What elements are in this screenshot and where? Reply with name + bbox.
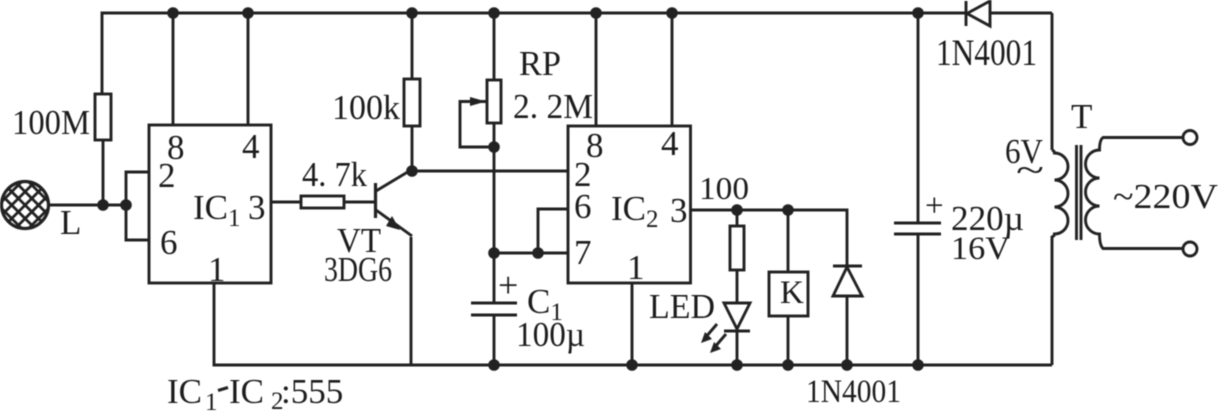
svg-text:K: K xyxy=(780,275,804,311)
wire bottom rail xyxy=(214,283,1052,365)
svg-text:4: 4 xyxy=(242,127,260,166)
wire IC1 pin4 to rail xyxy=(247,13,250,125)
svg-text:6: 6 xyxy=(160,223,178,262)
relay K xyxy=(769,210,808,365)
node junction RP rail xyxy=(488,7,500,19)
node junction C1 ground xyxy=(488,359,500,371)
svg-text:4: 4 xyxy=(661,124,679,163)
electrode L xyxy=(0,165,92,245)
wire bracket pins 6-7 of IC2 xyxy=(538,209,568,253)
svg-text:T: T xyxy=(1071,97,1092,136)
svg-text:2. 2M: 2. 2M xyxy=(513,87,593,126)
svg-text:6: 6 xyxy=(574,187,592,226)
capacitor C1 100u xyxy=(471,303,517,365)
svg-text:L: L xyxy=(60,203,81,242)
transformer T primary 6V xyxy=(1052,13,1068,365)
svg-text:100µ: 100µ xyxy=(516,315,585,354)
svg-text:100M: 100M xyxy=(12,103,90,142)
node junction output/100 xyxy=(731,204,743,216)
svg-text:100: 100 xyxy=(699,170,749,206)
svg-text:RP: RP xyxy=(519,44,561,83)
svg-text:1: 1 xyxy=(627,248,645,287)
diode D3 1N4001 rectifier xyxy=(966,1,990,26)
svg-text:100k: 100k xyxy=(332,88,400,127)
wire IC1 pin8 to rail xyxy=(172,13,175,125)
wire IC2 pin1 to ground xyxy=(631,283,634,365)
svg-text:3DG6: 3DG6 xyxy=(324,250,392,289)
node junction RP wiper xyxy=(488,141,500,153)
svg-text:2: 2 xyxy=(158,156,176,195)
wire emitter down xyxy=(410,237,413,365)
wire top rail xyxy=(102,13,966,94)
wire from electrode L to node xyxy=(47,204,126,207)
svg-text:1: 1 xyxy=(208,250,226,289)
op-amp U2 IC2 555 box xyxy=(568,126,691,283)
wire IC2 pin8 to rail xyxy=(595,13,598,126)
node junction pin4 rail xyxy=(242,7,254,19)
wire pin7 to C1 xyxy=(493,253,496,302)
svg-text:3: 3 xyxy=(670,191,688,230)
node junction 220u rail xyxy=(912,7,924,19)
node junction bracket pin7 xyxy=(532,247,544,259)
wire bracket pins 2-6 of IC1 xyxy=(126,172,149,240)
transformer T secondary 220V xyxy=(1086,138,1184,249)
wire RP to pins 6/7 xyxy=(493,147,496,253)
terminal lower xyxy=(1183,242,1197,256)
svg-text:~220V: ~220V xyxy=(1113,177,1218,216)
node junction bracket xyxy=(120,199,132,211)
node junction IC2 pin4 rail xyxy=(666,7,678,19)
svg-text:16V: 16V xyxy=(951,231,1010,267)
node junction IC2 pin8 rail xyxy=(590,7,602,19)
resistor R 4.7k xyxy=(301,196,374,208)
node junction output/K xyxy=(782,204,794,216)
svg-text:3: 3 xyxy=(248,188,266,227)
svg-text:LED: LED xyxy=(649,287,715,326)
svg-text:1N4001: 1N4001 xyxy=(806,374,901,410)
transistor Q1 VT 3DG6 xyxy=(376,170,413,236)
svg-text:+: + xyxy=(925,188,944,224)
wire IC1 pin3 xyxy=(271,201,301,204)
node junction 220u ground xyxy=(912,359,924,371)
node junction 100k rail xyxy=(406,7,418,19)
svg-text:4. 7k: 4. 7k xyxy=(302,155,367,194)
potentiometer RP 2.2M xyxy=(460,13,501,147)
wire collector to IC2 pin2 xyxy=(412,170,568,173)
wire IC2 pin4 to rail xyxy=(671,13,674,126)
svg-text:IC1: IC1 xyxy=(193,188,241,232)
op-amp U1 IC1 555 box xyxy=(149,125,271,283)
node junction diode ground xyxy=(841,359,853,371)
wire IC2 pin3 output xyxy=(690,210,847,265)
node junction LED ground xyxy=(731,359,743,371)
svg-text:IC2: IC2 xyxy=(611,189,659,233)
node junction pin7 xyxy=(488,247,500,259)
resistor R 100k xyxy=(404,13,420,171)
transformer T core xyxy=(1077,145,1082,240)
diode D2 1N4001 flyback xyxy=(833,266,862,365)
svg-text:+: + xyxy=(498,265,518,305)
svg-text:7: 7 xyxy=(574,233,592,272)
svg-text:~: ~ xyxy=(1016,150,1044,190)
svg-text:IC1IC2:555: IC1IC2:555 xyxy=(167,372,343,411)
node junction pin8 rail xyxy=(167,7,179,19)
LED D1 xyxy=(701,303,750,365)
node junction IC2 pin1 ground xyxy=(626,359,638,371)
capacitor C2 220u 16V xyxy=(894,13,941,365)
resistor R 100 xyxy=(730,210,744,302)
node junction L/100M xyxy=(97,199,109,211)
svg-text:1N4001: 1N4001 xyxy=(936,33,1037,74)
wire pin7 horizontal xyxy=(494,252,568,255)
node junction K ground xyxy=(782,359,794,371)
wire top rail right of diode xyxy=(990,12,1052,15)
node junction collector xyxy=(406,165,418,177)
terminal upper xyxy=(1183,131,1197,145)
resistor R 100M xyxy=(95,94,111,205)
